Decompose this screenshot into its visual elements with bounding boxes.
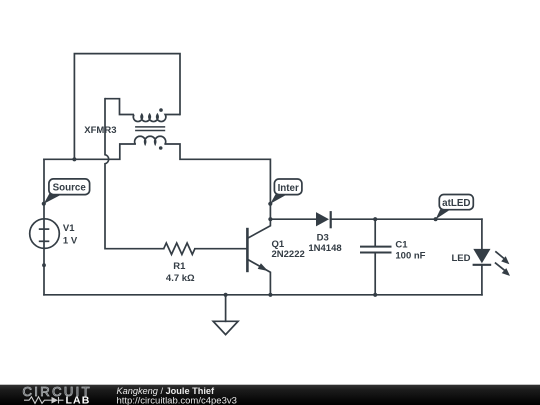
svg-text:V1: V1 (63, 223, 75, 234)
node flag atLED (434, 195, 474, 222)
resistor R1 (164, 243, 195, 284)
svg-text:2N2222: 2N2222 (272, 249, 305, 260)
diode D3 (308, 211, 341, 254)
LED (452, 249, 492, 265)
footer bar (0, 385, 540, 405)
wire left horizontal to source (44, 144, 135, 159)
node flag Inter (268, 179, 302, 206)
svg-text:Inter: Inter (278, 183, 299, 194)
logo squiggle (24, 397, 64, 404)
junction dot top-left (72, 157, 76, 161)
wire collector to node (248, 219, 271, 238)
svg-text:http://circuitlab.com/c4pe3v3: http://circuitlab.com/c4pe3v3 (117, 396, 237, 405)
wire source vertical (43, 159, 45, 294)
wire LED branch lower (481, 265, 483, 295)
svg-text:Source: Source (53, 182, 87, 193)
wire base lead (195, 248, 246, 250)
wire primary-left vertical with hop (105, 99, 164, 249)
transformer XFMR3 (84, 99, 180, 150)
svg-text:LAB: LAB (66, 394, 91, 405)
wire diode right to LED branch (331, 218, 482, 220)
LED emission arrow 1 (495, 251, 509, 264)
junction dot cap top (373, 217, 377, 221)
wire capacitor upper lead (374, 219, 376, 246)
svg-text:D3: D3 (317, 232, 329, 243)
svg-text:XFMR3: XFMR3 (84, 125, 116, 136)
wire top loop (74, 54, 180, 160)
svg-text:C1: C1 (395, 239, 408, 250)
svg-text:R1: R1 (173, 261, 186, 272)
ground (213, 321, 238, 334)
capacitor C1 (360, 239, 426, 261)
svg-text:100 nF: 100 nF (395, 251, 425, 262)
junction dot below V1 (42, 263, 46, 267)
junction dot collector node (268, 217, 272, 221)
wire emitter (248, 259, 271, 294)
junction dot ground (224, 293, 228, 297)
svg-text:LED: LED (452, 253, 471, 264)
voltage source V1 (30, 219, 78, 249)
LED emission arrow 2 (495, 263, 510, 276)
svg-text:atLED: atLED (442, 198, 470, 209)
wire bottom rail (44, 294, 482, 296)
svg-text:1N4148: 1N4148 (308, 243, 341, 254)
wire ground lead (225, 295, 227, 322)
svg-text:1 V: 1 V (63, 236, 78, 247)
transistor Q1 (247, 228, 304, 272)
svg-text:4.7 kΩ: 4.7 kΩ (166, 273, 195, 284)
junction dot emitter rail (268, 293, 272, 297)
wire LED branch upper (481, 219, 483, 249)
wire bottom winding right lead to collector node (165, 144, 270, 219)
junction dot cap bottom (373, 293, 377, 297)
wire capacitor lower lead (374, 253, 376, 295)
wire diode left lead (270, 218, 316, 220)
node flag Source (42, 179, 90, 206)
